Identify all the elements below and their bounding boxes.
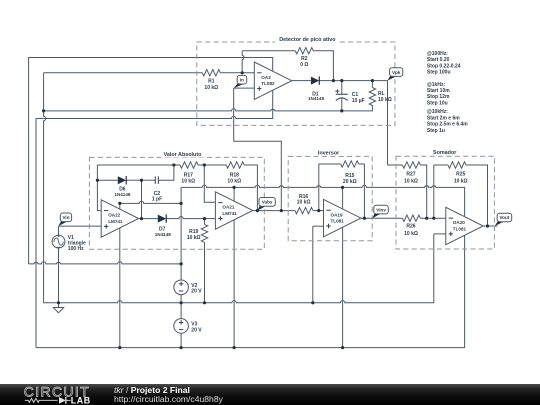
node Vinv (372, 205, 388, 218)
junction R2/R1/OA2- node (241, 71, 244, 74)
ground (53, 308, 63, 313)
svg-text:OA22: OA22 (108, 213, 120, 218)
svg-text:Start 2m e 6m: Start 2m e 6m (427, 115, 460, 121)
wire R25 left lead (434, 164, 448, 166)
section box: Somador (396, 149, 494, 249)
wire inverting node down to OA22 minus input (97, 165, 101, 211)
resistor RL (369, 88, 375, 106)
wire Vin node to OA22 non-inverting input (59, 225, 102, 227)
wire D7 cathode to OA21 plus input (166, 216, 215, 218)
node in (234, 75, 247, 88)
node Vpk (388, 68, 403, 81)
wire inverting node to D6 anode (97, 179, 117, 181)
svg-text:OA20: OA20 (453, 220, 465, 225)
svg-text:@10kHz:: @10kHz: (427, 109, 448, 115)
svg-text:10 kΩ: 10 kΩ (227, 179, 241, 185)
diode D6 (118, 176, 126, 184)
junction R27 at summing node (425, 217, 428, 220)
svg-text:OA19: OA19 (331, 212, 343, 217)
svg-text:10 µF: 10 µF (352, 98, 365, 104)
svg-text:Valor Absoluto: Valor Absoluto (164, 152, 203, 158)
svg-text:Vpk: Vpk (392, 70, 401, 75)
svg-text:10 kΩ: 10 kΩ (181, 179, 195, 185)
svg-text:Vabs: Vabs (262, 200, 273, 205)
svg-text:Vout: Vout (499, 215, 509, 220)
wire OA22 V+ pin to V+ riser (120, 201, 181, 203)
svg-text:R1: R1 (208, 78, 215, 84)
svg-text:10 kΩ: 10 kΩ (204, 85, 218, 91)
wire R25 right down to OA20 output (466, 165, 488, 226)
svg-text:10 kΩ: 10 kΩ (297, 200, 311, 206)
wire OA20 plus input (434, 233, 446, 235)
wire OA21 V+ pin stub (233, 187, 235, 201)
wire R1 right to OA2 inverting input (220, 72, 254, 74)
wire OA20 output to Vout node (483, 225, 497, 227)
svg-text:Step 1u: Step 1u (427, 128, 445, 134)
svg-text:Stop 2.5m e 6.4m: Stop 2.5m e 6.4m (427, 122, 468, 128)
wire R15 left lead (319, 163, 341, 165)
wire D6 cathode to OA22 output node (126, 179, 141, 181)
junction C1 bottom (340, 109, 343, 112)
wire R17 right to R18 left (198, 164, 226, 166)
svg-text:10 kΩ: 10 kΩ (404, 231, 418, 237)
wire ground rail: left drop and bottom run to OA20 plus input (44, 73, 434, 303)
wire V+ rail to V2 plus terminal (29, 262, 182, 264)
svg-text:R18: R18 (230, 172, 239, 178)
junction R25 at summing node (432, 217, 435, 220)
svg-text:Stop 12m: Stop 12m (427, 94, 450, 100)
svg-text:Start 10m: Start 10m (427, 88, 450, 94)
wire OA19 V- pin down to V- rail (342, 227, 344, 347)
wire C1 top lead (341, 81, 343, 95)
svg-text:in: in (240, 77, 244, 82)
op-amp OA2 (254, 62, 291, 99)
wire C1 bottom lead (341, 98, 343, 111)
junction R17-R18 node (203, 163, 206, 166)
CircuitLab logo (0, 384, 110, 405)
junction RL top (371, 79, 374, 82)
svg-text:10 kΩ: 10 kΩ (454, 179, 468, 185)
junction Vabs tap to detector (280, 209, 283, 212)
svg-text:Vin: Vin (62, 215, 69, 220)
svg-text:20 kΩ: 20 kΩ (343, 179, 357, 185)
wire OA19 output Vinv node to R26 (361, 217, 403, 219)
resistor R19 (201, 224, 207, 242)
junction OA19 plus at ground rail (311, 301, 314, 304)
junction OA19 V- at V- rail (341, 346, 344, 349)
wire OA22 V+ pin stub (119, 203, 121, 209)
svg-text:R26: R26 (406, 224, 415, 230)
wire OA22 output riser (141, 180, 143, 218)
wire OA22 output to D7 anode (139, 218, 158, 220)
junction V1 minus at ground rail (57, 301, 60, 304)
wire R2 left lead (242, 50, 295, 52)
svg-text:Inversor: Inversor (318, 150, 340, 156)
svg-text:LAB: LAB (71, 395, 91, 405)
junction D6 anode tap (96, 179, 99, 182)
wire OA2 V- pin down and left to V- rail (36, 90, 273, 348)
wire OA19 V+ pin stub (342, 187, 344, 208)
wire D1 cathode to Vpk node and down to R27 (319, 81, 387, 165)
svg-text:OA2: OA2 (261, 75, 271, 80)
wire R15 right down to OA19 output (359, 164, 365, 218)
wire R2 left to OA2 inverting node (242, 51, 244, 73)
node Vout (495, 213, 512, 226)
svg-text:1N4148: 1N4148 (308, 96, 325, 101)
junction R18 at OA21 output (256, 209, 259, 212)
footer bar (0, 384, 540, 405)
voltage source V3 (174, 319, 189, 334)
resistor R1 (202, 70, 220, 76)
junction OA22 output (140, 217, 143, 220)
op-amp OA19 (324, 199, 361, 236)
wire V+ rail to OA21 OA19 OA20 V+ pins (181, 185, 465, 216)
svg-text:Step 100u: Step 100u (427, 70, 451, 76)
wire ground to R1 left (44, 72, 203, 74)
wire V+ riser (180, 187, 182, 203)
junction V3 minus at V- rail (180, 346, 183, 349)
wire R26 right to OA20 inverting input (420, 217, 445, 219)
op-amp OA22 (101, 200, 138, 237)
diode D1 (311, 77, 319, 85)
svg-text:@100Hz:: @100Hz: (427, 51, 448, 57)
svg-text:R2: R2 (301, 56, 308, 62)
logo resistor-diode glyph (25, 399, 58, 403)
diode D7 (158, 215, 166, 223)
resistor R18 (226, 162, 244, 168)
wire OA22 inverting node to R17 (97, 164, 180, 166)
wire R19 top lead (204, 219, 206, 225)
junction OA22 V+ pin (118, 202, 121, 205)
wire C2 right up to R17 node (158, 165, 174, 180)
wire R17 R18 node to OA21 inverting input (204, 165, 215, 202)
junction R19 top (203, 217, 206, 220)
junction OA19 V+ pin (341, 186, 344, 189)
resistor R16 (295, 207, 313, 213)
node Vin (59, 213, 72, 226)
svg-text:TL082: TL082 (261, 81, 275, 86)
wire in node to OA2 non-inverting input (234, 87, 255, 89)
svg-text:1 pF: 1 pF (152, 197, 162, 203)
wire R16 right to OA19 inverting input (313, 210, 324, 212)
svg-text:1N4148: 1N4148 (155, 232, 172, 237)
wire Vpk to R27 left (388, 164, 403, 166)
resistor R15 (341, 161, 359, 167)
resistor R25 (448, 162, 466, 168)
junction OA22 V- at V- rail (118, 346, 121, 349)
wire OA21 V- pin down to V- rail (233, 220, 235, 348)
wire R25 left down to summing node (433, 165, 435, 218)
wire OA22 V- pin down to V- rail (119, 228, 121, 348)
svg-text:Detector de pico ativo: Detector de pico ativo (279, 37, 336, 43)
wire ground rail to C1 RL bottoms (44, 105, 373, 111)
svg-text:LM741: LM741 (108, 219, 123, 224)
resistor R27 (402, 162, 420, 168)
svg-text:1N4148: 1N4148 (114, 192, 131, 197)
wire R2 right to OA2 output (313, 51, 333, 81)
junction R19 at ground rail (203, 301, 206, 304)
svg-text:10 kΩ: 10 kΩ (404, 179, 418, 185)
junction V2/V3 at ground rail (180, 301, 183, 304)
wire R27 right down to summing node (420, 165, 426, 218)
svg-text:TL081: TL081 (453, 226, 467, 231)
svg-text:Start 0.20: Start 0.20 (427, 57, 450, 63)
svg-text:OA21: OA21 (222, 205, 234, 210)
wire Vin node down to V1 plus (58, 226, 60, 235)
wire V+ from V2 up left side to OA2 V+ pin (29, 58, 273, 264)
svg-text:R17: R17 (184, 172, 193, 178)
svg-text:TL081: TL081 (331, 219, 345, 224)
svg-text:10 kΩ: 10 kΩ (187, 235, 201, 241)
resistor R26 (402, 215, 420, 221)
svg-text:0 Ω: 0 Ω (300, 62, 308, 68)
junction V+ riser (180, 202, 183, 205)
wire R15 left down to OA19 inverting node (318, 164, 320, 211)
footer title text (114, 386, 223, 404)
wire in node down to Vabs node (234, 88, 282, 211)
wire OA2 output to D1 anode (292, 80, 311, 82)
op-amp OA20 (446, 207, 483, 244)
junction R2 right at output (332, 79, 335, 82)
wire RL top lead (371, 81, 373, 88)
svg-text:100 Hz: 100 Hz (68, 246, 84, 252)
section box: Detector de pico ativo (197, 36, 395, 126)
wire OA21 output Vabs node to R16 (253, 210, 295, 212)
svg-text:Vinv: Vinv (376, 207, 386, 212)
section box: Valor Absoluto (89, 151, 264, 249)
wire V- rail across bottom to OA20 V- pin (36, 235, 465, 347)
capacitor C2 (155, 176, 158, 184)
svg-text:10 kΩ: 10 kΩ (378, 97, 392, 103)
svg-text:Somador: Somador (433, 150, 457, 156)
svg-text:R25: R25 (456, 171, 465, 177)
voltage source V2 (174, 280, 189, 295)
wire output node to C2 left (142, 179, 156, 181)
capacitor C1 (335, 89, 348, 100)
svg-text:@1kHz:: @1kHz: (427, 82, 446, 88)
wire OA19 plus input (313, 225, 324, 227)
svg-text:R15: R15 (345, 173, 354, 179)
junction R25 right at OA20 output (486, 224, 489, 227)
wire V3 minus terminal to V- rail (180, 333, 182, 347)
svg-text:LM741: LM741 (222, 211, 237, 216)
junction OA21 V- at V- rail (233, 346, 236, 349)
wire V2 plus terminal up to V+ distribution (180, 203, 182, 280)
wire OA19 plus input down to ground rail (312, 226, 314, 303)
junction ground rail left (42, 109, 45, 112)
wire V2 minus to V3 plus through ground rail (180, 295, 182, 319)
op-amp OA21 (215, 192, 252, 229)
junction C2 right (172, 163, 175, 166)
section box: Inversor (288, 149, 372, 241)
junction OA21 V+ pin (233, 186, 236, 189)
svg-text:R27: R27 (406, 171, 415, 177)
annotation text block (427, 51, 468, 134)
junction R15 left at OA19- (317, 209, 320, 212)
voltage source V1 (52, 235, 65, 248)
svg-text:Step 10u: Step 10u (427, 100, 448, 106)
svg-text:20 V: 20 V (191, 289, 202, 295)
svg-text:20 V: 20 V (191, 327, 202, 333)
junction R15 right at OA19 output (363, 217, 366, 220)
wire R19 bottom to ground rail (204, 242, 206, 302)
node Vabs (257, 198, 275, 211)
junction D6 cathode / C2 / OA22 out (140, 179, 143, 182)
resistor R17 (180, 162, 198, 168)
resistor R2 (295, 48, 313, 54)
svg-text:Stop 0.22-0.24: Stop 0.22-0.24 (427, 63, 461, 69)
junction V+ rail at V2 (180, 262, 183, 265)
wire R18 right down to OA21 output (244, 165, 257, 211)
junction C1 top (340, 79, 343, 82)
wire V1 minus to ground rail (58, 248, 60, 308)
